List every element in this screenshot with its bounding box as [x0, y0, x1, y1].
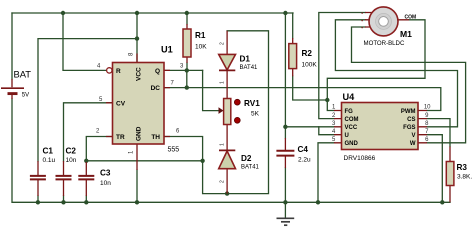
- svg-text:100K: 100K: [302, 62, 318, 69]
- svg-text:DC: DC: [151, 85, 161, 92]
- svg-text:C1: C1: [43, 147, 54, 156]
- svg-text:10: 10: [424, 105, 431, 111]
- svg-text:U: U: [345, 133, 349, 139]
- svg-text:0.1u: 0.1u: [43, 157, 56, 164]
- svg-text:GND: GND: [345, 141, 359, 147]
- svg-text:Q: Q: [155, 68, 160, 75]
- svg-text:C4: C4: [298, 145, 309, 154]
- svg-text:FGS: FGS: [403, 125, 415, 131]
- svg-text:R1: R1: [195, 31, 206, 40]
- svg-text:2: 2: [220, 180, 226, 183]
- svg-text:CS: CS: [407, 117, 415, 123]
- svg-text:●: ●: [361, 11, 363, 15]
- svg-text:GND: GND: [136, 126, 143, 141]
- svg-text:3.8K.: 3.8K.: [457, 174, 472, 181]
- svg-text:CV: CV: [116, 100, 126, 107]
- svg-text:BAT: BAT: [14, 69, 32, 80]
- svg-text:MOTOR-BLDC: MOTOR-BLDC: [364, 40, 405, 47]
- svg-text:BAT41: BAT41: [241, 165, 260, 171]
- svg-text:1: 1: [220, 81, 226, 84]
- svg-text:R: R: [116, 68, 121, 75]
- svg-text:2.2u: 2.2u: [298, 157, 311, 164]
- svg-text:D1: D1: [240, 55, 251, 64]
- svg-text:V: V: [411, 133, 415, 139]
- svg-text:5K: 5K: [251, 111, 260, 118]
- svg-text:2: 2: [220, 42, 226, 45]
- svg-text:TH: TH: [151, 134, 160, 141]
- svg-text:C2: C2: [66, 147, 77, 156]
- svg-text:●: ●: [361, 26, 363, 30]
- svg-text:FG: FG: [345, 109, 354, 115]
- svg-text:10n: 10n: [66, 157, 77, 164]
- svg-text:5V: 5V: [22, 93, 29, 99]
- svg-text:U1: U1: [161, 45, 173, 55]
- svg-text:D2: D2: [241, 154, 252, 163]
- svg-text:VCC: VCC: [136, 67, 143, 81]
- svg-text:C3: C3: [100, 169, 111, 178]
- svg-text:COM: COM: [405, 15, 417, 21]
- svg-text:BAT41: BAT41: [240, 65, 259, 71]
- svg-text:PWM: PWM: [401, 109, 416, 115]
- svg-text:VCC: VCC: [345, 125, 358, 131]
- svg-text:●: ●: [361, 18, 363, 22]
- svg-text:DRV10866: DRV10866: [344, 155, 376, 162]
- svg-text:W: W: [410, 141, 416, 147]
- svg-text:10K: 10K: [195, 44, 207, 51]
- svg-text:R3: R3: [457, 163, 468, 172]
- svg-text:555: 555: [168, 147, 180, 154]
- svg-text:1: 1: [220, 143, 226, 146]
- svg-text:TR: TR: [116, 134, 125, 141]
- svg-text:R2: R2: [302, 49, 313, 58]
- svg-text:COM: COM: [345, 117, 359, 123]
- svg-text:RV1: RV1: [244, 99, 260, 108]
- svg-text:U4: U4: [343, 92, 356, 102]
- svg-text:M1: M1: [400, 29, 412, 39]
- svg-text:10n: 10n: [100, 180, 111, 187]
